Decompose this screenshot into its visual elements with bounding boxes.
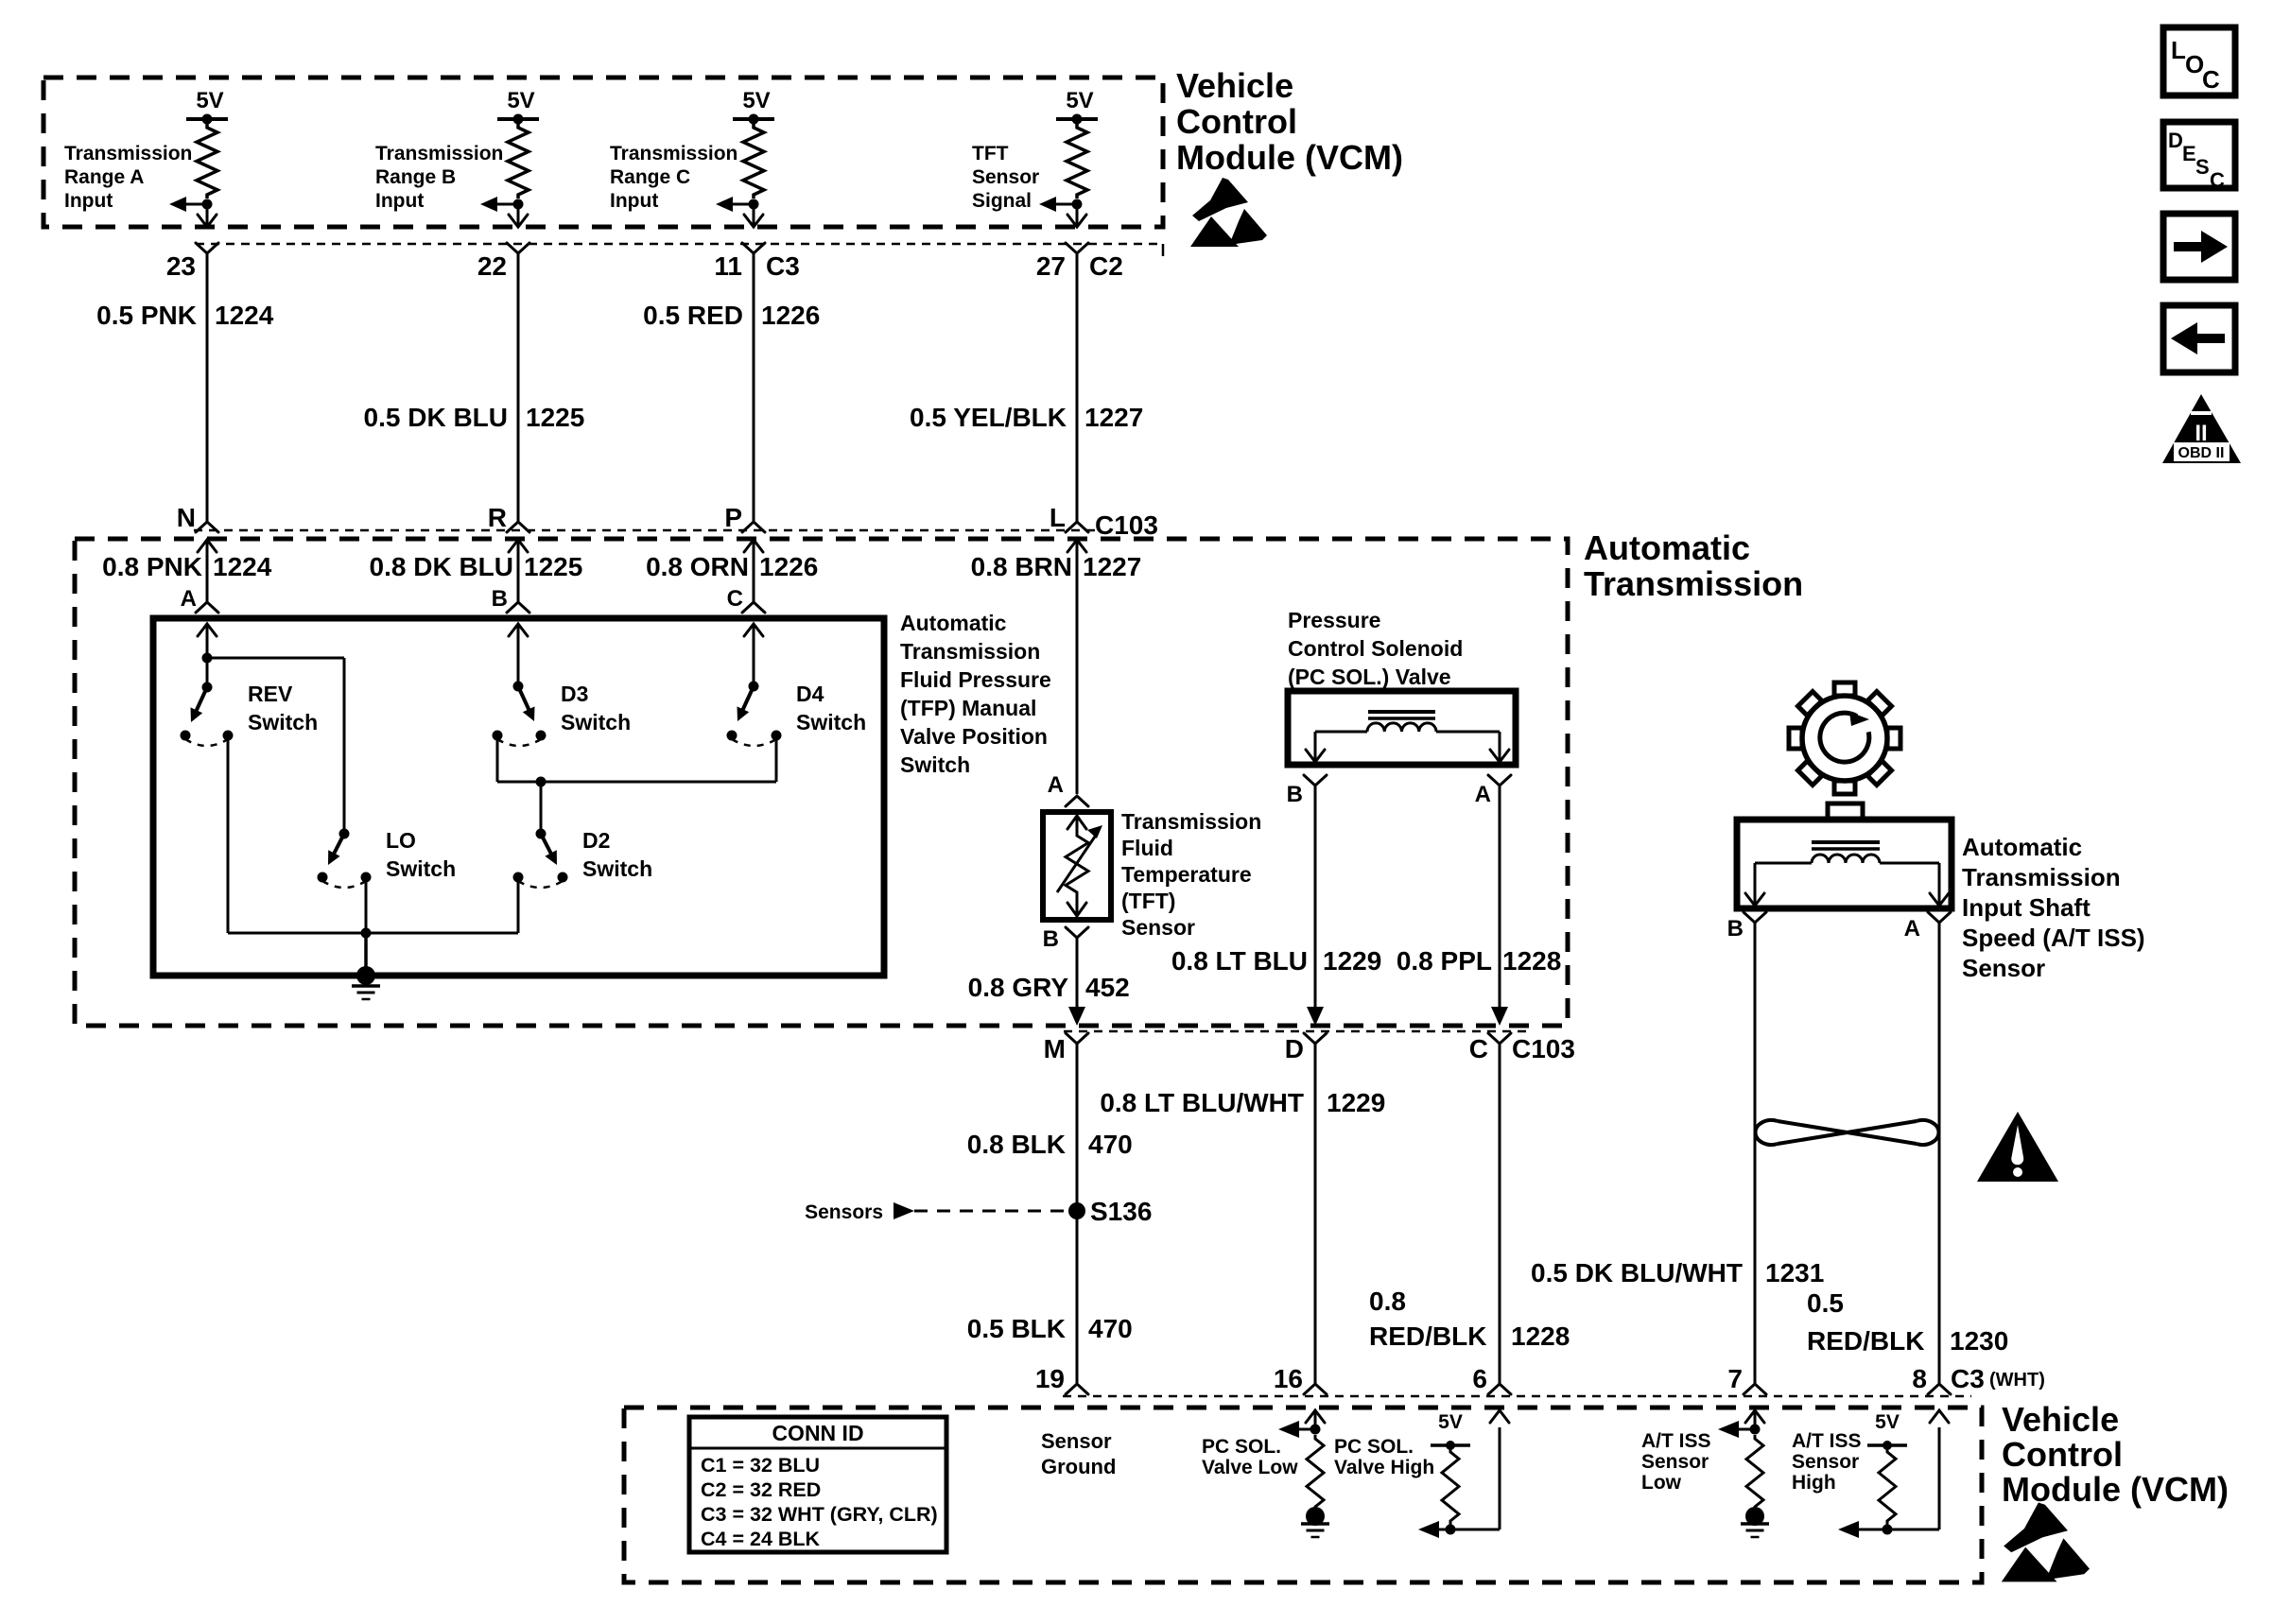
svg-text:Fluid Pressure: Fluid Pressure [900, 667, 1051, 692]
svg-text:5V: 5V [196, 88, 223, 113]
svg-text:Vehicle: Vehicle [2002, 1400, 2119, 1439]
TFT sensor box [1043, 812, 1111, 920]
svg-text:Sensor: Sensor [1041, 1429, 1112, 1453]
svg-text:Switch: Switch [561, 710, 631, 734]
svg-text:Valve Low: Valve Low [1202, 1457, 1298, 1478]
svg-text:8: 8 [1912, 1364, 1927, 1393]
reluctor gear icon [1789, 682, 1900, 794]
svg-text:C3 = 32 WHT (GRY, CLR): C3 = 32 WHT (GRY, CLR) [701, 1503, 938, 1526]
A/T ISS core bars [1812, 840, 1880, 844]
svg-text:Input: Input [375, 190, 424, 212]
svg-text:5V: 5V [507, 88, 534, 113]
A/T ISS sensor low signal arrow [1734, 1428, 1755, 1431]
C103 female fork terminal L [1066, 522, 1088, 532]
wire 1228 (C to VCM 6) [1499, 1044, 1501, 1384]
svg-text:1226: 1226 [761, 301, 820, 330]
connector C1/C2/C3 thin dashed line (top) [196, 243, 1163, 246]
C103 female fork terminal R [507, 522, 529, 532]
svg-text:1231: 1231 [1765, 1258, 1824, 1287]
svg-text:7: 7 [1727, 1364, 1743, 1393]
switch LO dashed throw arc [322, 881, 366, 888]
A/T ISS sensor top tab [1828, 803, 1863, 820]
svg-text:M: M [1044, 1034, 1066, 1063]
resistor PC SOL valve high [1442, 1448, 1459, 1525]
svg-text:L: L [2171, 36, 2186, 64]
svg-text:Sensor: Sensor [1962, 954, 2045, 982]
svg-text:Automatic: Automatic [900, 611, 1007, 635]
ground bus wire inside switch [228, 932, 518, 935]
TFP manual valve position switch box [153, 618, 884, 976]
svg-text:1230: 1230 [1950, 1326, 2008, 1356]
A/T ISS pin fork A [1928, 912, 1951, 923]
svg-text:0.5 DK BLU/WHT: 0.5 DK BLU/WHT [1531, 1258, 1743, 1287]
svg-text:27: 27 [1036, 251, 1066, 281]
wire D4 input inside switch [753, 624, 755, 686]
ground node A/T ISS sensor low [1745, 1507, 1764, 1526]
wire 1231 (ISS B to VCM 7) [1754, 923, 1757, 1384]
svg-text:0.8 LT BLU: 0.8 LT BLU [1171, 946, 1308, 976]
C103 lower female fork M [1066, 1033, 1088, 1044]
svg-text:C: C [1469, 1034, 1488, 1063]
ground symbol (switch case) [352, 984, 380, 988]
wire to D2 switch [540, 782, 543, 834]
svg-text:Sensors: Sensors [805, 1201, 883, 1223]
case ground node dot [356, 966, 375, 985]
svg-text:Input: Input [610, 190, 658, 212]
svg-text:1226: 1226 [759, 552, 818, 581]
wire 1229 (D to VCM 16) [1314, 1044, 1317, 1384]
svg-text:470: 470 [1088, 1314, 1133, 1343]
wire segment 1224 into TFP switch [206, 540, 209, 604]
svg-text:0.8 DK BLU: 0.8 DK BLU [370, 552, 513, 581]
svg-text:0.5 PNK: 0.5 PNK [96, 301, 197, 330]
wire and signal arrow A/T ISS sensor high [1855, 1529, 1939, 1531]
svg-text:B: B [1043, 926, 1059, 952]
A/T ISS pin fork B [1744, 912, 1766, 923]
VCM pin male arrow (cell 1) [198, 215, 217, 227]
C103 lower female fork D [1304, 1033, 1327, 1044]
OBD II triangle icon [2162, 394, 2241, 463]
VCM pin 6 male arrow [1490, 1410, 1509, 1423]
Vehicle Control Module (VCM) top dashed boundary box [43, 78, 1163, 227]
A/T ISS internal wires with arrows [1755, 862, 1812, 865]
VCM pin fork 8 [1928, 1384, 1951, 1394]
svg-text:D4: D4 [796, 682, 824, 706]
PC SOL valve low junction [1310, 1425, 1321, 1435]
svg-text:Transmission: Transmission [1121, 809, 1261, 834]
svg-text:1224: 1224 [215, 301, 274, 330]
junction A/T ISS sensor high [1883, 1525, 1893, 1535]
svg-text:High: High [1792, 1472, 1836, 1494]
svg-text:C3: C3 [1951, 1364, 1985, 1393]
svg-text:Valve High: Valve High [1334, 1457, 1434, 1478]
svg-text:Sensor: Sensor [1792, 1451, 1859, 1473]
svg-text:Temperature: Temperature [1121, 862, 1252, 887]
svg-text:C: C [2210, 168, 2225, 192]
switch D3 arm [518, 686, 530, 714]
A/T ISS pickup coil [1812, 855, 1880, 863]
5V rail bar with junction (cell 4) [1056, 117, 1098, 121]
ground symbol PC SOL valve low [1301, 1522, 1329, 1526]
wire segment 1227 to TFT sensor [1076, 540, 1079, 794]
svg-text:A/T ISS: A/T ISS [1641, 1430, 1711, 1452]
thermistor variable arrow [1057, 834, 1097, 892]
svg-text:N: N [177, 503, 196, 532]
svg-text:1224: 1224 [213, 552, 272, 581]
VCM pin male arrow (cell 4) [1067, 215, 1086, 227]
svg-text:1225: 1225 [524, 552, 582, 581]
wire and signal arrow PC SOL valve high [1435, 1529, 1500, 1531]
TFP switch pin fork B [507, 602, 529, 613]
svg-text:Control Solenoid: Control Solenoid [1288, 636, 1463, 661]
svg-text:0.5 RED: 0.5 RED [643, 301, 743, 330]
Vehicle Control Module (VCM) bottom dashed boundary box [624, 1408, 1982, 1582]
svg-text:19: 19 [1035, 1364, 1065, 1393]
svg-text:C3: C3 [766, 251, 800, 281]
svg-text:RED/BLK: RED/BLK [1807, 1326, 1924, 1356]
svg-text:Speed (A/T ISS): Speed (A/T ISS) [1962, 924, 2145, 952]
wire segment 1226 into TFP switch [753, 540, 755, 604]
svg-text:1229: 1229 [1323, 946, 1381, 976]
svg-text:Transmission: Transmission [900, 639, 1040, 664]
svg-text:B: B [1727, 916, 1744, 942]
pin 22 female fork [507, 243, 529, 253]
svg-text:S136: S136 [1090, 1197, 1152, 1226]
svg-text:C: C [727, 586, 743, 612]
svg-text:Sensor: Sensor [972, 166, 1039, 188]
pin 11 female fork [742, 243, 765, 253]
PC solenoid internal wires with arrows [1315, 731, 1367, 734]
svg-text:C1 = 32 BLU: C1 = 32 BLU [701, 1454, 820, 1477]
svg-text:D: D [2168, 129, 2183, 152]
resistor pull-up R4 in VCM [1067, 124, 1087, 199]
svg-text:Switch: Switch [796, 710, 866, 734]
switch REV contacts [181, 731, 191, 741]
svg-text:C2: C2 [1089, 251, 1123, 281]
wire branch to LO switch [207, 657, 344, 660]
svg-text:A: A [1475, 782, 1491, 807]
switch D4 dashed throw arc [732, 739, 776, 746]
connector thin dashed line (bottom) [1063, 1395, 1971, 1398]
signal arrow to VCM internals (cell 2) [490, 203, 518, 206]
svg-text:0.8: 0.8 [1369, 1287, 1406, 1316]
ground symbol A/T ISS sensor low [1741, 1522, 1769, 1526]
svg-text:A: A [181, 586, 197, 612]
switch REV arm [195, 687, 207, 715]
svg-text:16: 16 [1274, 1364, 1303, 1393]
svg-text:A/T ISS: A/T ISS [1792, 1430, 1862, 1452]
PC SOL valve low signal arrow [1294, 1428, 1315, 1431]
ground node PC SOL valve low [1306, 1507, 1325, 1526]
svg-text:OBD II: OBD II [2178, 445, 2225, 461]
svg-text:(WHT): (WHT) [1989, 1370, 2045, 1391]
switch LO pivot [339, 829, 350, 839]
svg-text:D3: D3 [561, 682, 588, 706]
svg-text:Switch: Switch [386, 856, 456, 881]
switch D2 contacts [513, 872, 524, 883]
wire VCM internal below resistor (cell 1) [206, 204, 209, 226]
wire D3 contact to D4 contact [496, 735, 499, 782]
switch D2 arm [541, 834, 553, 858]
Automatic Transmission dashed boundary box [75, 539, 1568, 1026]
svg-text:5V: 5V [1066, 88, 1093, 113]
wire D2 contact to ground bus [517, 877, 520, 933]
wire sensor ground 470 (M to VCM 19) [1076, 1044, 1079, 1384]
wire 452 arrow at C103 [1068, 1007, 1085, 1026]
wire 1229 (PC SOL B to C103 D) [1314, 786, 1317, 1010]
svg-text:470: 470 [1088, 1130, 1133, 1159]
C103 lower female fork C [1488, 1033, 1511, 1044]
junction to LO branch [202, 653, 213, 664]
svg-text:PC SOL.: PC SOL. [1334, 1436, 1414, 1458]
5V rail bar with junction (cell 1) [186, 117, 228, 121]
svg-text:0.5: 0.5 [1807, 1288, 1844, 1318]
C103 thin dashed connector line (lower) [1064, 1030, 1527, 1033]
junction PC SOL valve high [1446, 1525, 1456, 1535]
svg-text:1228: 1228 [1502, 946, 1561, 976]
junction D2 branch [536, 777, 547, 787]
dashed splice reference line [914, 1210, 1066, 1213]
PC solenoid pin fork A [1488, 775, 1511, 786]
svg-text:C103: C103 [1512, 1034, 1575, 1063]
svg-text:P: P [724, 503, 742, 532]
switch D3 dashed throw arc [497, 739, 541, 746]
switch REV dashed throw arc [185, 739, 228, 746]
signal arrow to VCM internals (cell 4) [1049, 203, 1077, 206]
svg-text:Input: Input [64, 190, 113, 212]
VCM pin 8 male arrow [1930, 1410, 1949, 1423]
svg-text:Module (VCM): Module (VCM) [2002, 1470, 2229, 1509]
svg-text:Range A: Range A [64, 166, 144, 188]
svg-text:(TFP) Manual: (TFP) Manual [900, 696, 1036, 720]
VCM pin male arrow (cell 3) [744, 215, 763, 227]
svg-text:5V: 5V [1438, 1411, 1463, 1433]
VCM pin fork 16 [1304, 1384, 1327, 1394]
svg-text:D2: D2 [582, 828, 610, 853]
svg-text:TFT: TFT [972, 143, 1009, 164]
svg-text:Transmission: Transmission [1962, 863, 2121, 891]
TFT sensor bottom arrow B [1076, 896, 1079, 916]
svg-text:Transmission: Transmission [64, 143, 192, 164]
svg-text:Switch: Switch [248, 710, 318, 734]
switch D4 contacts [727, 731, 737, 741]
svg-text:Valve Position: Valve Position [900, 724, 1048, 749]
wire 1225 circuit (pin 22 to C103 R) [517, 253, 520, 522]
wire 1230 (ISS A to VCM 8) [1938, 923, 1941, 1384]
svg-text:Sensor: Sensor [1641, 1451, 1709, 1473]
C103 thin dashed connector line (upper) [194, 529, 1097, 532]
A/T ISS sensor low junction [1750, 1425, 1761, 1435]
svg-text:1227: 1227 [1084, 403, 1143, 432]
svg-text:Range B: Range B [375, 166, 456, 188]
svg-text:11: 11 [714, 251, 742, 281]
TFT sensor pin arrow A [1067, 816, 1086, 829]
TFP switch pin arrow B [509, 624, 528, 636]
C103 male arrow terminal R [509, 540, 528, 552]
svg-text:CONN ID: CONN ID [772, 1421, 863, 1445]
svg-text:5V: 5V [1875, 1411, 1900, 1433]
ground bus junction [361, 928, 372, 939]
signal junction dot (cell 4) [1072, 199, 1083, 210]
svg-text:B: B [492, 586, 508, 612]
TFT sensor pin fork B [1066, 927, 1088, 938]
wire D3 input inside switch [517, 624, 520, 686]
svg-text:22: 22 [477, 251, 507, 281]
C103 female fork terminal N [196, 522, 218, 532]
signal arrow to VCM internals (cell 1) [179, 203, 207, 206]
wire 1226 circuit (pin 11 to C103 P) [753, 253, 755, 522]
svg-text:0.5 DK BLU: 0.5 DK BLU [364, 403, 508, 432]
switch LO arm [332, 834, 344, 858]
DESC legend icon [2163, 122, 2235, 188]
forward arrow legend icon [2163, 214, 2235, 280]
svg-text:A: A [1048, 772, 1064, 798]
svg-text:Range C: Range C [610, 166, 690, 188]
signal junction dot (cell 1) [202, 199, 213, 210]
ESD sensitivity icon bottom [2004, 1503, 2068, 1553]
resistor A/T ISS sensor high [1879, 1448, 1896, 1525]
switch D4 arm [741, 686, 754, 714]
svg-text:Fluid: Fluid [1121, 836, 1173, 860]
twisted pair symbol [1755, 1120, 1778, 1145]
svg-text:RED/BLK: RED/BLK [1369, 1322, 1486, 1351]
svg-text:LO: LO [386, 828, 416, 853]
wire REV contact to ground bus [227, 735, 230, 933]
wire VCM internal below resistor (cell 3) [753, 204, 755, 226]
wire segment 1225 into TFP switch [517, 540, 520, 604]
svg-text:C4 = 24 BLK: C4 = 24 BLK [701, 1528, 821, 1550]
wire LO contact to ground bus [365, 877, 368, 933]
svg-text:Control: Control [1176, 102, 1297, 141]
svg-text:(TFT): (TFT) [1121, 889, 1175, 913]
C103 female fork terminal P [742, 522, 765, 532]
switch REV pivot [202, 682, 213, 693]
resistor A/T ISS sensor low [1746, 1435, 1763, 1511]
VCM pin 16 male arrow [1306, 1410, 1325, 1423]
PC solenoid core bars [1368, 710, 1435, 714]
A/T ISS sensor box [1737, 820, 1952, 908]
svg-text:23: 23 [166, 251, 196, 281]
svg-text:1225: 1225 [526, 403, 584, 432]
PC solenoid valve box [1288, 691, 1516, 765]
svg-text:Module (VCM): Module (VCM) [1176, 138, 1403, 177]
back arrow legend icon [2163, 305, 2235, 372]
VCM pin male arrow (cell 2) [509, 215, 528, 227]
svg-text:C2 = 32 RED: C2 = 32 RED [701, 1478, 821, 1501]
VCM pin fork 7 [1744, 1384, 1766, 1394]
signal junction dot (cell 2) [513, 199, 524, 210]
svg-text:1229: 1229 [1327, 1088, 1385, 1117]
svg-text:Automatic: Automatic [1584, 528, 1750, 567]
svg-text:Control: Control [2002, 1435, 2123, 1474]
5V rail bar with junction (cell 2) [497, 117, 539, 121]
svg-text:Automatic: Automatic [1962, 833, 2082, 861]
svg-text:(PC SOL.) Valve: (PC SOL.) Valve [1288, 665, 1451, 689]
svg-text:Signal: Signal [972, 190, 1032, 212]
thermistor TFT zigzag [1066, 832, 1088, 896]
svg-text:Transmission: Transmission [610, 143, 737, 164]
svg-text:D: D [1285, 1034, 1304, 1063]
svg-text:6: 6 [1472, 1364, 1487, 1393]
splice S136 node [1068, 1202, 1085, 1219]
TFP switch pin fork A [196, 602, 218, 613]
C103 male arrow terminal N [198, 540, 217, 552]
TFT sensor pin fork A [1066, 796, 1088, 806]
wire REV input inside switch [206, 624, 209, 687]
svg-text:0.5 YEL/BLK: 0.5 YEL/BLK [910, 403, 1067, 432]
CONN ID table [689, 1417, 946, 1552]
svg-text:Transmission: Transmission [1584, 564, 1803, 603]
svg-text:E: E [2182, 142, 2196, 165]
resistor pull-up R2 in VCM [508, 124, 529, 199]
svg-text:REV: REV [248, 682, 293, 706]
wire bus to case ground [364, 933, 368, 976]
svg-text:0.8 GRY: 0.8 GRY [968, 973, 1069, 1002]
wire 452 sensor ground [1076, 938, 1079, 1011]
svg-text:Ground: Ground [1041, 1455, 1116, 1478]
svg-text:R: R [488, 503, 507, 532]
svg-text:II: II [2195, 421, 2207, 446]
ESD sensitivity icon top [1192, 178, 1248, 221]
svg-text:0.8 BLK: 0.8 BLK [967, 1130, 1066, 1159]
svg-text:0.8 PNK: 0.8 PNK [102, 552, 202, 581]
PC solenoid coil L1 [1367, 723, 1436, 732]
svg-text:Switch: Switch [900, 752, 970, 777]
wire 1227 circuit (pin 27 to C103 L) [1076, 253, 1079, 522]
PC solenoid pin fork B [1304, 775, 1327, 786]
pin 23 female fork [196, 243, 218, 253]
TFP switch pin arrow C [744, 624, 763, 636]
svg-text:0.8 PPL: 0.8 PPL [1397, 946, 1492, 976]
resistor pull-up R1 in VCM [197, 124, 217, 199]
C103 male arrow terminal P [744, 540, 763, 552]
VCM pin fork 6 [1488, 1384, 1511, 1394]
pin 27 female fork [1066, 243, 1088, 253]
svg-text:Input Shaft: Input Shaft [1962, 893, 2091, 922]
svg-text:B: B [1287, 782, 1303, 807]
switch D2 pivot [536, 829, 547, 839]
switch D3 contacts [493, 731, 503, 741]
svg-text:0.5 BLK: 0.5 BLK [967, 1314, 1066, 1343]
5V rail bar with junction (cell 3) [733, 117, 774, 121]
svg-text:A: A [1904, 916, 1920, 942]
svg-text:S: S [2195, 155, 2210, 179]
resistor PC SOL valve low [1307, 1435, 1324, 1511]
VCM pin fork 19 [1066, 1384, 1088, 1394]
svg-text:Transmission: Transmission [375, 143, 503, 164]
svg-text:C: C [2202, 65, 2220, 94]
svg-text:Pressure: Pressure [1288, 608, 1380, 632]
switch D2 dashed throw arc [518, 881, 563, 888]
LOC legend icon [2163, 27, 2235, 95]
svg-text:5V: 5V [742, 88, 770, 113]
rotation arrow inside gear [1820, 713, 1869, 762]
svg-text:PC SOL.: PC SOL. [1202, 1436, 1281, 1458]
switch D4 pivot [749, 682, 759, 692]
svg-text:Sensor: Sensor [1121, 915, 1195, 940]
svg-text:1227: 1227 [1083, 552, 1141, 581]
svg-text:L: L [1050, 503, 1066, 532]
wire VCM internal below resistor (cell 2) [517, 204, 520, 226]
wire 1228 (PC SOL A to C103 C) [1499, 786, 1501, 1010]
svg-text:0.8 ORN: 0.8 ORN [646, 552, 749, 581]
svg-text:0.8 LT BLU/WHT: 0.8 LT BLU/WHT [1100, 1088, 1304, 1117]
switch D3 pivot [513, 682, 524, 692]
wire VCM internal below resistor (cell 4) [1076, 204, 1079, 226]
resistor pull-up R3 in VCM [743, 124, 764, 199]
warning triangle icon [1977, 1112, 2058, 1182]
switch LO contacts [318, 872, 328, 883]
